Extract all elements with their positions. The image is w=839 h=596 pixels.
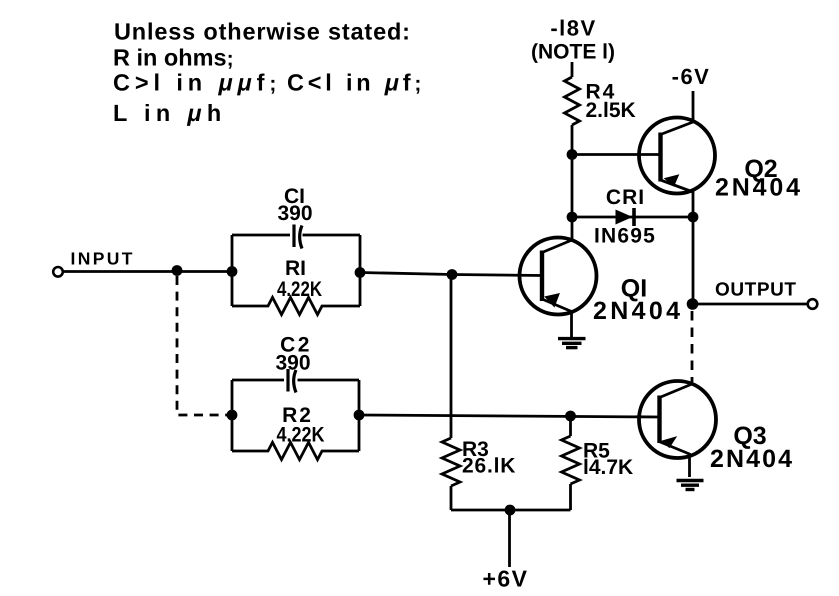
output terminal [808, 299, 818, 309]
diode CR1 [616, 210, 633, 225]
wire Q1 emitter to ground [570, 312, 573, 339]
wire input to C1R1 block [63, 270, 232, 273]
transistor Q1 [520, 238, 597, 315]
resistor R2 [232, 442, 359, 459]
svg-text:C>l in μμf;: C>l in μμf; [113, 70, 281, 96]
svg-text:RI: RI [285, 257, 306, 280]
svg-text:-l8V: -l8V [550, 16, 596, 41]
svg-text:INPUT: INPUT [71, 249, 133, 269]
node output junction [687, 298, 699, 310]
svg-text:2N404: 2N404 [715, 174, 800, 202]
resistor R3 [442, 438, 460, 486]
svg-text:OUTPUT: OUTPUT [715, 280, 796, 301]
wire R4 down to Q1 collector [571, 125, 574, 240]
svg-text:390: 390 [277, 202, 312, 225]
wire +6V stem [508, 510, 511, 567]
wire Q2 emitter down [692, 192, 695, 218]
wire CR1 line [572, 216, 693, 219]
input terminal [53, 267, 63, 277]
transistor Q3 [639, 381, 716, 458]
note text block [113, 19, 425, 127]
node +6V junction [505, 505, 516, 516]
node block2 right [354, 410, 365, 421]
svg-text:4.22K: 4.22K [277, 424, 325, 447]
ground Q3 [677, 481, 704, 490]
wire Q3 emitter to ground [688, 453, 691, 477]
svg-text:L in μh: L in μh [113, 100, 227, 126]
svg-text:(NOTE l): (NOTE l) [531, 41, 615, 64]
node R5 top [565, 411, 576, 422]
wire block to Q1 base [360, 273, 543, 276]
wire R5 to rail [569, 484, 572, 510]
ground Q1 [558, 339, 586, 348]
svg-text:2N404: 2N404 [593, 297, 680, 325]
node input junction [172, 265, 183, 276]
transistor Q2 [639, 118, 715, 194]
wire R3 to rail [450, 486, 453, 510]
node R4 / Q2 base junction [567, 149, 578, 160]
wire to Q2 base [572, 153, 661, 156]
svg-text:C<l in μf;: C<l in μf; [287, 70, 425, 96]
svg-text:+6V: +6V [482, 566, 528, 592]
capacitor C2 [286, 369, 289, 392]
dashed wire output to Q3 collector [691, 311, 694, 382]
capacitor C1 [292, 225, 295, 248]
node CR1 left [567, 212, 578, 223]
node block left [227, 266, 238, 277]
svg-text:390: 390 [275, 352, 310, 375]
wire R5 vertical top [569, 416, 572, 436]
node R3 top junction [447, 269, 458, 280]
svg-text:R in ohms;: R in ohms; [113, 45, 234, 71]
wire -18V stem [571, 62, 574, 77]
resistor R5 [562, 436, 580, 484]
resistor R4 [565, 77, 580, 125]
svg-text:-6V: -6V [672, 64, 711, 89]
svg-text:4.22K: 4.22K [277, 278, 322, 301]
svg-text:l4.7K: l4.7K [583, 456, 633, 479]
svg-text:Unless otherwise stated:: Unless otherwise stated: [114, 19, 410, 45]
svg-text:26.lK: 26.lK [462, 455, 516, 478]
wire output vertical [692, 217, 695, 304]
svg-text:2.l5K: 2.l5K [586, 99, 636, 122]
resistor R1 [232, 297, 360, 314]
svg-text:2N404: 2N404 [710, 445, 792, 473]
dashed wire input to C2R2 [177, 276, 228, 415]
C1 R1 parallel block frame [232, 235, 360, 306]
wire +6V rail [451, 509, 571, 512]
svg-text:CRI: CRI [606, 186, 645, 209]
wire R3 vertical [450, 275, 453, 439]
wire R2 to Q3 base [359, 415, 660, 417]
wire output horizontal [693, 303, 808, 306]
svg-text:IN695: IN695 [594, 225, 656, 248]
wire Q2 collector to -6V [692, 91, 695, 122]
node CR1 right [688, 212, 699, 223]
node block2 left [227, 410, 238, 421]
C2 R2 parallel block frame [232, 380, 359, 451]
node block right [355, 267, 366, 278]
